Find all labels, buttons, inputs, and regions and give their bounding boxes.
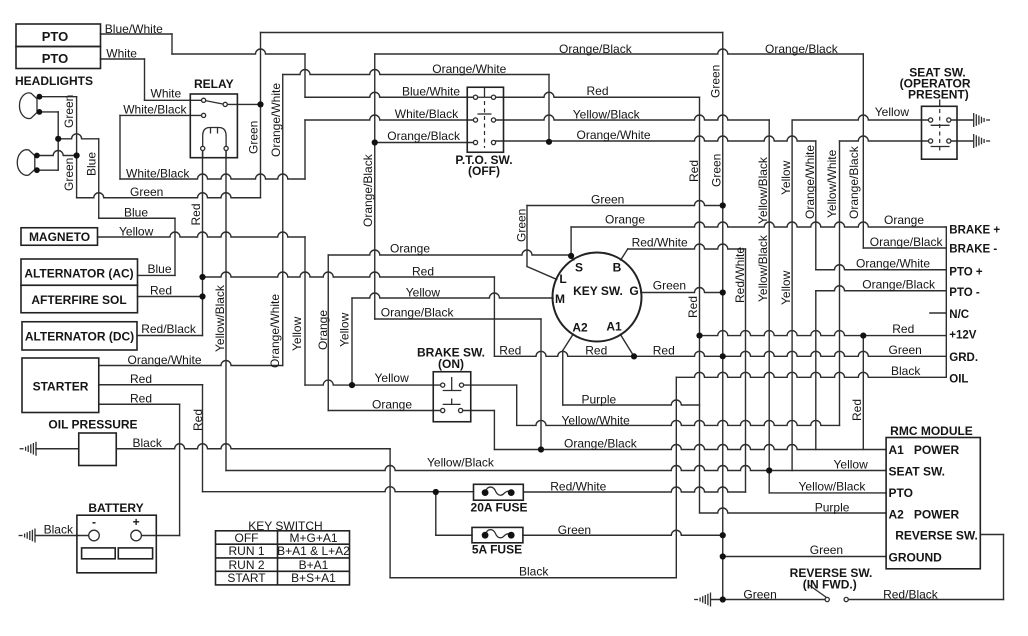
svg-text:BATTERY: BATTERY bbox=[88, 501, 143, 515]
svg-text:Blue: Blue bbox=[124, 206, 148, 220]
svg-text:Red: Red bbox=[191, 409, 205, 431]
svg-text:HEADLIGHTS: HEADLIGHTS bbox=[15, 74, 93, 88]
svg-text:Yellow: Yellow bbox=[406, 286, 441, 300]
svg-text:ALTERNATOR (AC): ALTERNATOR (AC) bbox=[24, 267, 133, 281]
svg-text:Orange/White: Orange/White bbox=[856, 257, 930, 271]
svg-text:Red: Red bbox=[130, 372, 152, 386]
svg-text:5A FUSE: 5A FUSE bbox=[472, 543, 522, 557]
svg-text:Green: Green bbox=[62, 95, 76, 128]
svg-text:Green: Green bbox=[558, 523, 591, 537]
svg-text:Yellow: Yellow bbox=[375, 371, 410, 385]
svg-text:Orange/Black: Orange/Black bbox=[870, 235, 944, 249]
svg-text:Yellow: Yellow bbox=[834, 458, 869, 472]
svg-text:Green: Green bbox=[62, 158, 76, 191]
svg-text:PTO: PTO bbox=[42, 51, 69, 66]
svg-text:Orange/White: Orange/White bbox=[432, 62, 506, 76]
svg-text:MAGNETO: MAGNETO bbox=[29, 230, 90, 244]
svg-text:Orange: Orange bbox=[372, 398, 412, 412]
svg-text:Orange: Orange bbox=[605, 213, 645, 227]
svg-text:+: + bbox=[133, 515, 140, 529]
svg-text:PTO: PTO bbox=[889, 486, 913, 500]
svg-text:A1 POWER: A1 POWER bbox=[889, 443, 960, 457]
svg-text:Red/White: Red/White bbox=[632, 236, 688, 250]
svg-text:B+S+A1: B+S+A1 bbox=[291, 571, 336, 585]
svg-text:Yellow: Yellow bbox=[875, 105, 910, 119]
svg-text:Yellow/Black: Yellow/Black bbox=[799, 480, 867, 494]
svg-text:Red/Black: Red/Black bbox=[141, 322, 197, 336]
svg-text:Orange/Black: Orange/Black bbox=[847, 145, 861, 219]
svg-text:GRD.: GRD. bbox=[949, 352, 978, 364]
svg-text:Orange/Black: Orange/Black bbox=[381, 306, 455, 320]
svg-text:ALTERNATOR (DC): ALTERNATOR (DC) bbox=[25, 330, 134, 344]
svg-text:Orange/Black: Orange/Black bbox=[564, 437, 638, 451]
svg-text:(OFF): (OFF) bbox=[468, 164, 500, 178]
svg-text:OIL PRESSURE: OIL PRESSURE bbox=[48, 418, 137, 432]
svg-text:Orange: Orange bbox=[884, 213, 924, 227]
svg-text:PTO: PTO bbox=[42, 29, 69, 44]
svg-text:Blue: Blue bbox=[85, 152, 99, 176]
svg-text:Black: Black bbox=[44, 523, 74, 537]
svg-text:Green: Green bbox=[889, 343, 922, 357]
svg-text:OFF: OFF bbox=[235, 531, 259, 545]
svg-text:A2: A2 bbox=[572, 321, 588, 335]
svg-text:Orange/Black: Orange/Black bbox=[361, 153, 375, 227]
svg-text:+12V: +12V bbox=[949, 330, 977, 342]
svg-text:S: S bbox=[575, 261, 583, 275]
svg-text:PRESENT): PRESENT) bbox=[908, 88, 969, 102]
svg-text:Red: Red bbox=[189, 203, 203, 225]
svg-text:Red/Black: Red/Black bbox=[883, 588, 939, 602]
svg-text:Red: Red bbox=[150, 284, 172, 298]
svg-text:A1: A1 bbox=[606, 320, 622, 334]
svg-text:Black: Black bbox=[519, 565, 549, 579]
svg-text:Red: Red bbox=[687, 160, 701, 182]
svg-text:RUN 1: RUN 1 bbox=[228, 544, 264, 558]
svg-text:Green: Green bbox=[130, 185, 163, 199]
svg-text:Blue/White: Blue/White bbox=[105, 22, 163, 36]
svg-text:Green: Green bbox=[653, 279, 686, 293]
svg-text:OIL: OIL bbox=[949, 374, 968, 386]
svg-text:Red/White: Red/White bbox=[733, 247, 747, 303]
svg-text:BRAKE -: BRAKE - bbox=[949, 244, 997, 256]
svg-text:A2 POWER: A2 POWER bbox=[889, 508, 960, 522]
svg-text:Purple: Purple bbox=[582, 393, 617, 407]
svg-text:Yellow/White: Yellow/White bbox=[825, 149, 839, 218]
svg-text:Yellow: Yellow bbox=[290, 316, 304, 351]
svg-text:-: - bbox=[92, 515, 96, 529]
svg-text:Red: Red bbox=[587, 84, 609, 98]
svg-text:Green: Green bbox=[710, 154, 724, 187]
svg-text:Blue/White: Blue/White bbox=[402, 85, 460, 99]
svg-text:N/C: N/C bbox=[949, 309, 969, 321]
svg-text:Yellow/Black: Yellow/Black bbox=[213, 284, 227, 352]
svg-text:White: White bbox=[106, 47, 137, 61]
svg-text:Red: Red bbox=[412, 265, 434, 279]
svg-text:Red: Red bbox=[850, 399, 864, 421]
svg-text:Green: Green bbox=[743, 588, 776, 602]
svg-text:B+A1: B+A1 bbox=[299, 558, 329, 572]
svg-text:Red: Red bbox=[585, 343, 607, 357]
svg-text:White/Black: White/Black bbox=[395, 107, 459, 121]
svg-text:KEY SW.: KEY SW. bbox=[573, 284, 623, 298]
svg-text:Black: Black bbox=[133, 436, 163, 450]
svg-text:White/Black: White/Black bbox=[126, 167, 190, 181]
svg-text:Red/White: Red/White bbox=[550, 480, 606, 494]
svg-text:B: B bbox=[613, 261, 622, 275]
svg-text:G: G bbox=[629, 284, 638, 298]
svg-text:Yellow/White: Yellow/White bbox=[562, 414, 631, 428]
svg-text:START: START bbox=[227, 571, 266, 585]
svg-text:RELAY: RELAY bbox=[194, 77, 234, 91]
svg-text:Orange/White: Orange/White bbox=[128, 353, 202, 367]
svg-text:Orange/White: Orange/White bbox=[269, 83, 283, 157]
svg-text:Orange: Orange bbox=[316, 310, 330, 350]
svg-text:L: L bbox=[559, 272, 566, 286]
svg-text:REVERSE SW.: REVERSE SW. bbox=[895, 529, 978, 543]
svg-text:M: M bbox=[555, 292, 565, 306]
svg-text:Blue: Blue bbox=[148, 262, 172, 276]
svg-text:B+A1 & L+A2: B+A1 & L+A2 bbox=[277, 544, 350, 558]
svg-text:Yellow/Black: Yellow/Black bbox=[427, 456, 495, 470]
svg-text:PTO +: PTO + bbox=[949, 267, 983, 279]
svg-text:RMC MODULE: RMC MODULE bbox=[890, 424, 973, 438]
svg-text:STARTER: STARTER bbox=[33, 380, 89, 394]
svg-text:White: White bbox=[151, 87, 182, 101]
svg-text:Yellow/Black: Yellow/Black bbox=[756, 234, 770, 302]
svg-text:Orange: Orange bbox=[390, 242, 430, 256]
svg-text:Green: Green bbox=[709, 65, 723, 98]
svg-text:Yellow/Black: Yellow/Black bbox=[756, 156, 770, 224]
svg-text:SEAT SW.: SEAT SW. bbox=[889, 465, 945, 479]
svg-text:GROUND: GROUND bbox=[889, 551, 943, 565]
svg-text:Yellow: Yellow bbox=[338, 312, 352, 347]
svg-text:White/Black: White/Black bbox=[123, 103, 187, 117]
svg-text:(ON): (ON) bbox=[438, 357, 464, 371]
svg-text:Purple: Purple bbox=[815, 501, 850, 515]
svg-text:Orange/Black: Orange/Black bbox=[862, 278, 936, 292]
svg-text:Yellow/Black: Yellow/Black bbox=[573, 108, 641, 122]
svg-text:Orange/Black: Orange/Black bbox=[559, 42, 633, 56]
svg-text:Red: Red bbox=[892, 322, 914, 336]
svg-text:Orange/Black: Orange/Black bbox=[387, 129, 461, 143]
svg-text:RUN 2: RUN 2 bbox=[228, 558, 264, 572]
svg-text:Yellow: Yellow bbox=[779, 160, 793, 195]
svg-text:(IN FWD.): (IN FWD.) bbox=[803, 578, 857, 592]
svg-text:Green: Green bbox=[247, 121, 261, 154]
svg-text:AFTERFIRE SOL: AFTERFIRE SOL bbox=[31, 293, 126, 307]
svg-text:M+G+A1: M+G+A1 bbox=[289, 531, 337, 545]
svg-text:Yellow: Yellow bbox=[779, 270, 793, 305]
svg-text:Red: Red bbox=[130, 392, 152, 406]
svg-text:PTO -: PTO - bbox=[949, 287, 980, 299]
svg-text:BRAKE +: BRAKE + bbox=[949, 225, 1000, 237]
svg-text:Green: Green bbox=[515, 209, 529, 242]
svg-text:Green: Green bbox=[810, 543, 843, 557]
svg-text:Black: Black bbox=[891, 364, 921, 378]
svg-text:Red: Red bbox=[499, 344, 521, 358]
svg-text:Red: Red bbox=[653, 343, 675, 357]
svg-text:Yellow: Yellow bbox=[119, 225, 154, 239]
svg-text:Red: Red bbox=[686, 296, 700, 318]
svg-text:Orange/White: Orange/White bbox=[803, 145, 817, 219]
svg-text:Green: Green bbox=[591, 193, 624, 207]
svg-text:Orange/White: Orange/White bbox=[577, 128, 651, 142]
svg-text:Orange/Black: Orange/Black bbox=[765, 42, 839, 56]
svg-text:Orange/White: Orange/White bbox=[268, 294, 282, 368]
svg-text:20A FUSE: 20A FUSE bbox=[471, 501, 528, 515]
